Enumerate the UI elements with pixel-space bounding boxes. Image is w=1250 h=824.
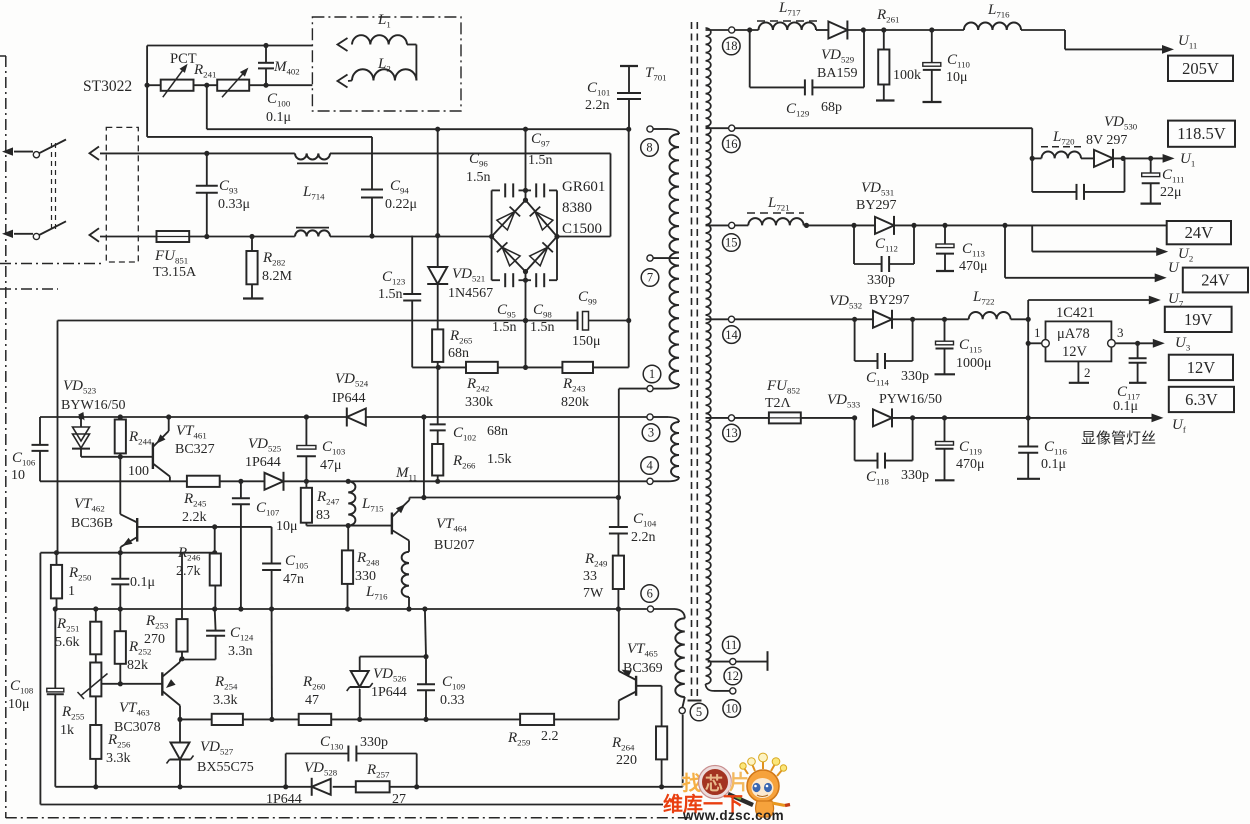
svg-text:BC36B: BC36B xyxy=(71,516,113,531)
wire U2 branch xyxy=(1005,225,1168,256)
AC plug prong upper xyxy=(2,147,33,155)
label C105 xyxy=(283,553,309,587)
wire U branch xyxy=(1005,225,1167,282)
label C118 xyxy=(866,468,929,487)
fuse FU852 xyxy=(769,412,801,423)
label R261 xyxy=(876,7,921,83)
transistor VT465 xyxy=(619,609,636,719)
junction pin4 line xyxy=(238,479,351,484)
capacitor C107 xyxy=(232,481,250,609)
svg-text:IP644: IP644 xyxy=(332,391,365,406)
wire ch16 out xyxy=(1114,154,1175,163)
wire emitter rail xyxy=(55,608,647,610)
resistor R282 xyxy=(243,234,264,299)
resistor R249 xyxy=(613,556,624,612)
svg-text:0.1μ: 0.1μ xyxy=(1041,457,1066,472)
svg-text:7W: 7W xyxy=(583,586,604,601)
label FU852 xyxy=(765,378,800,411)
svg-text:U: U xyxy=(1168,260,1180,276)
wire pin3 line xyxy=(40,416,647,418)
svg-text:18: 18 xyxy=(725,39,738,53)
label C109 xyxy=(440,674,466,708)
label U1 xyxy=(1180,151,1195,169)
label R254 xyxy=(213,674,238,708)
svg-text:2.2: 2.2 xyxy=(541,729,559,744)
junction rectified top xyxy=(435,127,631,132)
svg-text:0.22μ: 0.22μ xyxy=(385,197,417,212)
connector lower xyxy=(90,228,100,241)
svg-text:ST3022: ST3022 xyxy=(83,78,132,95)
inductor L721 xyxy=(747,213,804,225)
capacitor C94 xyxy=(361,137,383,239)
diode VD529 xyxy=(828,21,847,40)
pin 18 label xyxy=(723,37,741,55)
svg-text:BA159: BA159 xyxy=(817,66,857,81)
svg-text:83: 83 xyxy=(316,508,330,523)
svg-text:11: 11 xyxy=(725,638,737,652)
svg-text:100k: 100k xyxy=(893,68,921,83)
svg-text:BY297: BY297 xyxy=(856,198,896,213)
svg-text:3: 3 xyxy=(1117,325,1124,340)
capacitor C109 xyxy=(417,609,435,719)
label C116 xyxy=(1041,439,1067,472)
wire AC top to bridge xyxy=(330,153,611,236)
svg-text:22μ: 22μ xyxy=(1160,185,1182,200)
svg-text:0.33: 0.33 xyxy=(440,693,465,708)
pin 14 xyxy=(728,316,734,322)
wire pin4 line xyxy=(40,480,647,482)
svg-text:270: 270 xyxy=(144,632,165,647)
label U second xyxy=(1168,260,1180,276)
resistor R260 xyxy=(299,714,332,725)
switch coupling dashed xyxy=(52,143,56,231)
svg-text:BYW16/50: BYW16/50 xyxy=(61,398,126,413)
svg-text:12V: 12V xyxy=(1187,358,1216,377)
pin 10 label xyxy=(723,700,741,718)
svg-text:1C421: 1C421 xyxy=(1056,305,1095,321)
core dashed lines xyxy=(692,22,698,697)
pin 11 xyxy=(730,659,736,665)
resistor R252 xyxy=(115,609,126,686)
border frame dash-dot left xyxy=(0,56,6,818)
svg-text:5.6k: 5.6k xyxy=(55,635,80,650)
svg-text:2.2k: 2.2k xyxy=(182,510,207,525)
label T701 xyxy=(645,65,667,83)
label C124 xyxy=(228,625,254,659)
resistor R241 element xyxy=(217,68,249,98)
resistor R244 xyxy=(115,417,126,457)
pin 14 label xyxy=(723,326,741,344)
svg-text:68p: 68p xyxy=(821,100,842,115)
box 24V second xyxy=(1183,268,1248,293)
box 6.3V xyxy=(1169,387,1234,412)
svg-text:BX55C75: BX55C75 xyxy=(197,760,254,775)
label VD532 xyxy=(829,293,909,311)
wire VD523 R244 base xyxy=(81,454,153,459)
svg-text:68n: 68n xyxy=(487,424,508,439)
pin 12 label xyxy=(724,667,742,685)
rectifier GR601 diamond xyxy=(489,200,560,274)
label L1 xyxy=(377,12,391,30)
logo watermark xyxy=(663,753,790,823)
label C106 xyxy=(11,450,36,483)
connector degauss upper xyxy=(338,38,348,51)
label L715 xyxy=(361,496,384,514)
svg-text:118.5V: 118.5V xyxy=(1177,124,1226,143)
label C95 xyxy=(492,302,517,335)
border frame dash-dot bottom xyxy=(6,817,690,819)
junction ch15 xyxy=(911,223,1007,228)
junction C93 xyxy=(204,151,209,239)
label C97 xyxy=(528,131,553,168)
pin 13 label xyxy=(723,424,741,442)
diode VD532 xyxy=(855,310,892,329)
wire AC neutral mid xyxy=(189,236,295,238)
label VT464 xyxy=(434,516,474,553)
svg-text:330k: 330k xyxy=(465,395,493,410)
label IC pin3 xyxy=(1117,325,1124,340)
svg-text:150μ: 150μ xyxy=(572,334,601,349)
diode VD523 xyxy=(72,412,90,457)
resistor R247 xyxy=(301,481,348,525)
diode bridge upper-left xyxy=(497,207,520,230)
pin 8 label xyxy=(641,139,659,157)
wire PCT tap vertical xyxy=(206,85,208,129)
wire VD526 top link xyxy=(360,654,429,659)
svg-text:3.3k: 3.3k xyxy=(213,693,238,708)
svg-text:15: 15 xyxy=(725,236,738,250)
wire R243 column xyxy=(628,129,630,367)
svg-text:470μ: 470μ xyxy=(956,457,985,472)
label M402 xyxy=(273,59,300,77)
svg-text:8380: 8380 xyxy=(562,200,592,216)
wire pin4 hook xyxy=(653,477,679,481)
label R264 xyxy=(611,735,637,768)
svg-text:13: 13 xyxy=(725,426,738,440)
label C107 xyxy=(256,500,298,534)
label C129 xyxy=(786,100,842,119)
label U11 xyxy=(1178,33,1197,51)
label VD529 xyxy=(817,47,857,81)
pin 6 xyxy=(647,606,653,612)
resistor R250 xyxy=(51,553,62,609)
label L2 xyxy=(377,56,391,74)
capacitor C104 xyxy=(609,498,628,556)
resistor R245 xyxy=(187,476,220,487)
wire bottom rail xyxy=(55,786,682,788)
wire pin16 tap xyxy=(706,127,729,129)
capacitor C102 xyxy=(430,367,446,444)
wire pin5 drop xyxy=(682,715,684,787)
diode VD531 xyxy=(854,216,1166,235)
svg-text:BY297: BY297 xyxy=(869,293,909,308)
wire pin6 hook xyxy=(654,609,685,618)
core ground tick xyxy=(688,700,702,702)
label C103 xyxy=(320,439,346,473)
wire AC live upper xyxy=(100,152,295,154)
svg-text:1P644: 1P644 xyxy=(371,685,407,700)
capacitor C108 xyxy=(47,609,64,787)
label U7 xyxy=(1168,291,1184,309)
diode VD527 xyxy=(167,719,194,786)
svg-text:4: 4 xyxy=(646,459,653,473)
svg-text:1.5n: 1.5n xyxy=(528,153,553,168)
svg-text:10: 10 xyxy=(725,702,738,716)
label VT462 xyxy=(71,496,113,531)
wire degauss right xyxy=(415,45,417,81)
svg-text:BC369: BC369 xyxy=(623,661,663,676)
capacitor C-emitter 0.1u xyxy=(111,553,129,609)
capacitor ch16 bypass xyxy=(1032,158,1124,200)
svg-text:12V: 12V xyxy=(1062,344,1088,360)
connector upper xyxy=(90,147,100,160)
resistor R253 xyxy=(176,553,187,662)
wire pin15 tap xyxy=(706,224,729,226)
capacitor C113 xyxy=(936,225,954,271)
pin 1 label xyxy=(643,365,661,383)
wire pin11 tap xyxy=(708,661,730,663)
inductor L716b xyxy=(964,23,1021,30)
wire IC pin2 ground xyxy=(1069,361,1091,382)
pin 15 label xyxy=(723,234,741,252)
wire pin1 hook xyxy=(653,384,679,389)
svg-text:片: 片 xyxy=(729,771,749,794)
resistor PCT element xyxy=(161,64,194,97)
box 118.5V xyxy=(1168,121,1235,147)
diode bridge lower-right xyxy=(530,242,553,265)
junction driver line xyxy=(177,717,428,722)
wire ch14 xyxy=(735,318,1029,320)
svg-text:12: 12 xyxy=(727,669,740,683)
diode VD521 xyxy=(427,129,448,329)
wire VT463 base line xyxy=(102,683,163,685)
label R246 xyxy=(176,545,201,579)
label VD533 xyxy=(827,392,942,410)
box 19V xyxy=(1165,307,1232,332)
label VD521 xyxy=(448,266,493,301)
label VD526 xyxy=(371,666,407,700)
label R242 xyxy=(465,376,493,410)
pin 16 xyxy=(729,125,735,131)
svg-text:47: 47 xyxy=(305,693,319,708)
label R252 xyxy=(127,639,151,673)
pin 4 label xyxy=(641,457,659,475)
pin 18 xyxy=(729,27,735,33)
label VT465 xyxy=(623,641,663,676)
resistor R243 xyxy=(562,362,593,373)
capacitor C117 xyxy=(1129,343,1147,383)
winding primary 8-1 xyxy=(669,134,679,384)
wire emitter bus xyxy=(40,550,217,555)
wire ch16 xyxy=(735,128,1035,161)
pin 5 xyxy=(679,708,685,714)
wire pin18 tap xyxy=(706,29,729,31)
label VD525 xyxy=(245,436,282,470)
wire pin8 hook xyxy=(653,129,679,134)
wire ch13 xyxy=(735,414,1164,423)
wire C105 drop xyxy=(271,609,273,719)
label R253 xyxy=(144,613,169,647)
svg-text:BC327: BC327 xyxy=(175,442,215,457)
box 24V first xyxy=(1167,221,1231,244)
wire ch15 xyxy=(735,223,857,228)
svg-text:1.5n: 1.5n xyxy=(378,287,403,302)
svg-text:1P644: 1P644 xyxy=(245,455,281,470)
resistor R256 xyxy=(90,696,101,786)
junction pin3 line xyxy=(78,414,426,419)
label C114 xyxy=(866,369,929,388)
svg-text:47μ: 47μ xyxy=(320,458,342,473)
resistor R246 xyxy=(210,527,221,609)
capacitor C124 xyxy=(182,609,225,660)
pin 11 label xyxy=(722,636,740,654)
capacitor C112 xyxy=(854,225,914,272)
resistor R248 xyxy=(342,526,353,612)
capacitor C98 xyxy=(536,273,544,287)
label U2 xyxy=(1178,246,1193,264)
wire IC output xyxy=(1115,339,1165,348)
pin 8 xyxy=(647,126,653,132)
wire ch18 xyxy=(735,27,964,32)
wire driver line xyxy=(180,718,619,720)
label R257 xyxy=(366,762,406,807)
capacitor C93 xyxy=(196,153,218,236)
AC plug prong lower xyxy=(2,230,33,238)
switch contact upper xyxy=(33,152,39,158)
label C104 xyxy=(631,511,657,545)
wire PCT top xyxy=(147,45,312,47)
pin 15 xyxy=(729,222,735,228)
switch contact lower xyxy=(33,233,39,239)
svg-text:PYW16/50: PYW16/50 xyxy=(879,392,942,407)
wire pin7 tap xyxy=(653,257,679,259)
wire ch15 out1 xyxy=(1165,224,1167,226)
svg-text:100: 100 xyxy=(128,464,149,479)
inductor L1 xyxy=(352,35,416,44)
pin 7 xyxy=(647,255,653,261)
wire bottom rail 2 xyxy=(40,804,663,806)
svg-text:1.5n: 1.5n xyxy=(530,320,555,335)
wire bridge top feed xyxy=(523,129,528,203)
wire PCT middle xyxy=(147,84,312,86)
wire pin13 tap xyxy=(706,417,729,419)
capacitor C110 xyxy=(923,30,942,102)
svg-text:1.5n: 1.5n xyxy=(466,170,491,185)
inductor L716 xyxy=(402,552,412,612)
label R244 xyxy=(128,429,152,479)
label IC421 xyxy=(1056,305,1095,321)
winding secondary xyxy=(706,28,715,691)
wire VT464 base xyxy=(348,525,392,527)
wire pin5 link xyxy=(682,697,684,708)
svg-text:16: 16 xyxy=(725,137,738,151)
label VD524 xyxy=(332,371,369,406)
svg-text:6.3V: 6.3V xyxy=(1185,390,1218,409)
label C101 xyxy=(585,80,610,113)
switch blade lower xyxy=(39,221,66,235)
label R259 xyxy=(507,729,559,748)
capacitor C118 xyxy=(855,418,913,469)
capacitor C129 xyxy=(750,30,864,95)
svg-text:芯: 芯 xyxy=(705,773,723,794)
capacitor C123 xyxy=(403,236,439,368)
svg-text:68n: 68n xyxy=(448,346,469,361)
svg-text:10μ: 10μ xyxy=(946,70,968,85)
label IC pin1 xyxy=(1034,325,1041,340)
junction ch14 xyxy=(852,317,1031,322)
svg-text:T2Λ: T2Λ xyxy=(765,396,792,411)
resistor R266 xyxy=(432,444,443,484)
svg-text:0.1μ: 0.1μ xyxy=(130,575,155,590)
svg-text:0.1μ: 0.1μ xyxy=(266,110,291,125)
wire pin14 tap xyxy=(706,318,729,320)
pin 3 xyxy=(647,414,653,420)
border dash-dot stub upper xyxy=(0,263,102,265)
svg-text:24V: 24V xyxy=(1201,271,1230,290)
label ST3022 xyxy=(83,78,132,95)
label C99 xyxy=(572,289,601,349)
label R260 xyxy=(302,674,326,708)
resistor R257 xyxy=(356,781,390,792)
svg-text:1.5n: 1.5n xyxy=(492,320,517,335)
svg-text:24V: 24V xyxy=(1185,223,1214,242)
wire PCT bottom xyxy=(147,136,372,138)
capacitor C96 xyxy=(505,183,513,197)
capacitor C97 xyxy=(536,183,544,197)
svg-text:C1500: C1500 xyxy=(562,221,602,237)
capacitor C114 xyxy=(855,319,913,369)
svg-text:PCT: PCT xyxy=(170,51,197,67)
wire AC bottom to bridge xyxy=(330,236,492,238)
svg-text:330p: 330p xyxy=(360,735,388,750)
junction ch13 xyxy=(852,415,1031,420)
capacitor C106 xyxy=(32,417,49,481)
wire U7 branch xyxy=(1028,296,1161,320)
wire left drop xyxy=(39,553,41,805)
svg-text:330p: 330p xyxy=(901,369,929,384)
pin 12 xyxy=(730,688,736,694)
pin 6 label xyxy=(641,585,659,603)
svg-text:8: 8 xyxy=(646,141,652,155)
inductor L2 xyxy=(348,69,416,81)
arrow U11 xyxy=(1065,45,1174,54)
svg-text:3.3k: 3.3k xyxy=(106,751,131,766)
label C94 xyxy=(385,178,417,212)
svg-text:3: 3 xyxy=(648,426,654,440)
svg-text:220: 220 xyxy=(616,753,637,768)
label C110 xyxy=(946,52,970,85)
transistor VT462 xyxy=(120,514,137,553)
svg-text:T3.15A: T3.15A xyxy=(153,265,197,280)
svg-text:6: 6 xyxy=(647,587,653,601)
wire IC input drop xyxy=(1026,319,1031,418)
svg-text:8.2M: 8.2M xyxy=(262,269,293,284)
svg-text:820k: 820k xyxy=(561,395,589,410)
svg-text:205V: 205V xyxy=(1182,59,1219,78)
capacitor C101 xyxy=(617,66,641,129)
label C123 xyxy=(378,269,406,302)
capacitor C100 xyxy=(258,46,274,86)
svg-text:10μ: 10μ xyxy=(8,697,30,712)
label R241 xyxy=(193,62,216,80)
svg-text:1: 1 xyxy=(68,584,75,599)
label Uf xyxy=(1172,417,1186,435)
pin 5 label xyxy=(690,703,708,721)
wire ch16 mid xyxy=(1032,157,1094,159)
switch blade upper xyxy=(39,140,66,154)
label R250 xyxy=(68,565,92,599)
connector dashed box xyxy=(106,127,138,262)
